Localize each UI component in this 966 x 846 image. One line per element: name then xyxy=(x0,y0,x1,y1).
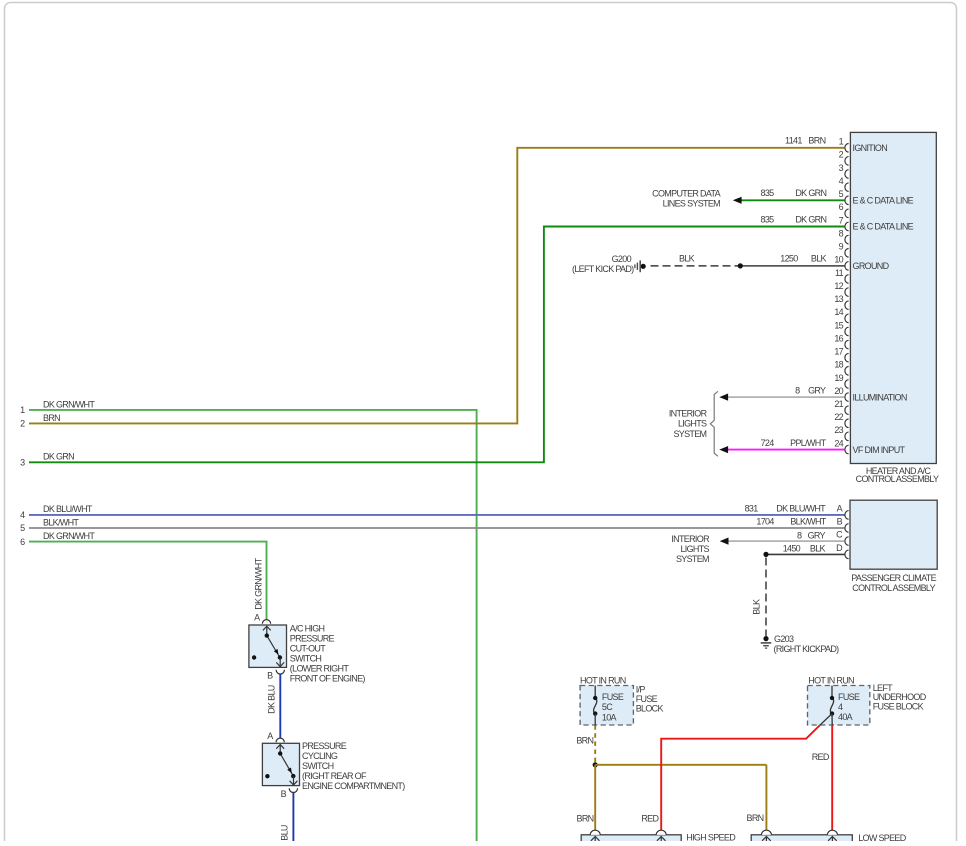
svg-text:10: 10 xyxy=(834,255,843,265)
svg-text:22: 22 xyxy=(834,412,843,422)
svg-text:A: A xyxy=(267,731,273,741)
svg-text:24: 24 xyxy=(834,438,843,448)
svg-text:ENGINE COMPARTMNENT): ENGINE COMPARTMNENT) xyxy=(302,781,405,791)
svg-text:I/P: I/P xyxy=(636,684,646,694)
svg-text:HOT IN RUN: HOT IN RUN xyxy=(580,675,626,685)
svg-text:RED: RED xyxy=(812,752,830,762)
svg-text:16: 16 xyxy=(834,333,843,343)
svg-text:A: A xyxy=(254,613,260,623)
svg-text:BLK: BLK xyxy=(679,253,695,263)
svg-text:4: 4 xyxy=(838,702,843,712)
svg-text:SWITCH: SWITCH xyxy=(290,653,322,663)
svg-text:DK BLU: DK BLU xyxy=(280,825,290,841)
svg-text:PRESSURE: PRESSURE xyxy=(290,633,335,643)
svg-text:LOW SPEED: LOW SPEED xyxy=(858,833,907,841)
svg-text:INTERIOR: INTERIOR xyxy=(671,534,710,544)
svg-text:DK GRN: DK GRN xyxy=(795,214,826,224)
svg-text:5: 5 xyxy=(20,523,25,533)
svg-text:B: B xyxy=(837,517,843,527)
svg-text:BLK: BLK xyxy=(752,599,762,615)
svg-text:INTERIOR: INTERIOR xyxy=(669,408,708,418)
svg-text:20: 20 xyxy=(834,386,843,396)
svg-text:IGNITION: IGNITION xyxy=(853,143,888,153)
svg-text:GRY: GRY xyxy=(808,530,826,540)
svg-text:CONTROL ASSEMBLY: CONTROL ASSEMBLY xyxy=(856,474,939,484)
svg-text:14: 14 xyxy=(834,307,843,317)
svg-text:FUSE: FUSE xyxy=(602,692,624,702)
svg-text:835: 835 xyxy=(761,188,775,198)
svg-text:DK GRN/WHT: DK GRN/WHT xyxy=(43,531,95,541)
svg-text:LIGHTS: LIGHTS xyxy=(678,419,707,429)
svg-text:BLK/WHT: BLK/WHT xyxy=(790,517,826,527)
svg-text:12: 12 xyxy=(834,281,843,291)
svg-text:BLOCK: BLOCK xyxy=(636,704,664,714)
svg-text:1141: 1141 xyxy=(785,136,802,146)
svg-text:LINES SYSTEM: LINES SYSTEM xyxy=(663,199,721,209)
svg-text:ILLUMINATION: ILLUMINATION xyxy=(853,392,907,402)
svg-text:BLK: BLK xyxy=(810,543,826,553)
svg-text:19: 19 xyxy=(834,373,843,383)
svg-text:(RIGHT REAR OF: (RIGHT REAR OF xyxy=(302,771,367,781)
svg-text:DK BLU/WHT: DK BLU/WHT xyxy=(776,503,826,513)
svg-text:6: 6 xyxy=(839,202,844,212)
svg-text:RED: RED xyxy=(641,814,659,824)
svg-text:A/C HIGH: A/C HIGH xyxy=(290,624,325,634)
svg-text:8: 8 xyxy=(797,530,802,540)
svg-text:724: 724 xyxy=(761,438,775,448)
svg-text:10A: 10A xyxy=(602,712,617,722)
svg-text:(LOWER RIGHT: (LOWER RIGHT xyxy=(290,663,350,673)
svg-text:VF DIM INPUT: VF DIM INPUT xyxy=(853,445,906,455)
svg-text:5C: 5C xyxy=(602,702,613,712)
svg-text:DK GRN/WHT: DK GRN/WHT xyxy=(43,399,95,409)
svg-text:13: 13 xyxy=(834,294,843,304)
svg-text:E & C DATA LINE: E & C DATA LINE xyxy=(853,196,914,206)
svg-text:A: A xyxy=(837,504,843,514)
svg-text:(RIGHT KICKPAD): (RIGHT KICKPAD) xyxy=(774,644,840,654)
svg-text:BLK/WHT: BLK/WHT xyxy=(43,517,79,527)
svg-text:PRESSURE: PRESSURE xyxy=(302,741,347,751)
svg-text:FUSE: FUSE xyxy=(838,692,860,702)
svg-text:G200: G200 xyxy=(612,254,632,264)
svg-text:7: 7 xyxy=(839,215,844,225)
svg-text:1450: 1450 xyxy=(783,543,801,553)
svg-text:SWITCH: SWITCH xyxy=(302,761,334,771)
svg-text:FUSE BLOCK: FUSE BLOCK xyxy=(873,702,924,712)
svg-text:DK GRN: DK GRN xyxy=(795,188,826,198)
svg-text:FUSE: FUSE xyxy=(636,694,658,704)
svg-text:COMPUTER DATA: COMPUTER DATA xyxy=(652,189,721,199)
svg-text:BRN: BRN xyxy=(577,814,594,824)
svg-text:15: 15 xyxy=(834,320,843,330)
svg-text:SYSTEM: SYSTEM xyxy=(676,554,709,564)
svg-text:17: 17 xyxy=(834,347,843,357)
svg-text:831: 831 xyxy=(745,503,759,513)
svg-text:CUT-OUT: CUT-OUT xyxy=(290,643,326,653)
svg-text:BLK: BLK xyxy=(811,253,827,263)
svg-text:2: 2 xyxy=(839,150,844,160)
svg-text:2: 2 xyxy=(20,419,25,429)
svg-text:BRN: BRN xyxy=(43,413,60,423)
svg-text:21: 21 xyxy=(834,399,843,409)
svg-text:FRONT OF ENGINE): FRONT OF ENGINE) xyxy=(290,673,366,683)
svg-text:DK BLU: DK BLU xyxy=(267,685,277,714)
svg-text:GROUND: GROUND xyxy=(853,261,890,271)
svg-text:(LEFT KICK PAD): (LEFT KICK PAD) xyxy=(572,264,634,274)
svg-text:1704: 1704 xyxy=(756,517,774,527)
svg-text:DK GRN/WHT: DK GRN/WHT xyxy=(253,557,263,609)
svg-text:DK GRN: DK GRN xyxy=(43,452,74,462)
svg-text:835: 835 xyxy=(761,214,775,224)
svg-text:HOT IN RUN: HOT IN RUN xyxy=(808,675,854,685)
svg-text:BRN: BRN xyxy=(576,735,593,745)
svg-text:3: 3 xyxy=(20,458,25,468)
svg-text:23: 23 xyxy=(834,425,843,435)
svg-text:GRY: GRY xyxy=(808,386,826,396)
svg-text:9: 9 xyxy=(839,242,844,252)
svg-text:G203: G203 xyxy=(774,634,794,644)
svg-text:CYCLING: CYCLING xyxy=(302,751,338,761)
svg-text:SYSTEM: SYSTEM xyxy=(673,429,706,439)
svg-text:B: B xyxy=(267,671,273,681)
svg-text:HIGH SPEED: HIGH SPEED xyxy=(686,833,736,841)
svg-text:PASSENGER CLIMATE: PASSENGER CLIMATE xyxy=(851,573,936,583)
svg-text:40A: 40A xyxy=(838,712,853,722)
svg-text:E & C DATA LINE: E & C DATA LINE xyxy=(853,222,914,232)
svg-text:1: 1 xyxy=(839,137,844,147)
svg-text:CONTROL ASSEMBLY: CONTROL ASSEMBLY xyxy=(852,583,935,593)
svg-text:4: 4 xyxy=(839,176,844,186)
svg-text:5: 5 xyxy=(839,189,844,199)
svg-text:LIGHTS: LIGHTS xyxy=(680,544,709,554)
svg-text:PPL/WHT: PPL/WHT xyxy=(790,438,826,448)
svg-text:11: 11 xyxy=(835,268,844,278)
svg-text:1250: 1250 xyxy=(780,253,798,263)
svg-text:BRN: BRN xyxy=(747,813,764,823)
svg-text:DK BLU/WHT: DK BLU/WHT xyxy=(43,504,93,514)
svg-text:18: 18 xyxy=(834,360,843,370)
svg-text:8: 8 xyxy=(795,386,800,396)
svg-text:1: 1 xyxy=(20,405,25,415)
svg-text:4: 4 xyxy=(20,510,25,520)
svg-text:BRN: BRN xyxy=(808,136,825,146)
svg-text:6: 6 xyxy=(20,537,25,547)
svg-text:B: B xyxy=(281,789,287,799)
svg-text:3: 3 xyxy=(839,163,844,173)
svg-text:8: 8 xyxy=(839,228,844,238)
